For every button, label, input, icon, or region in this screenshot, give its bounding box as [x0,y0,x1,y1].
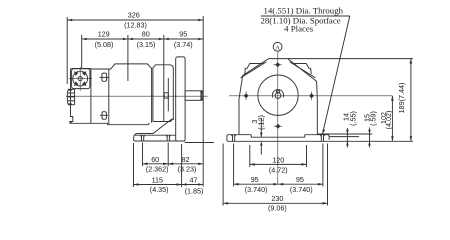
foot bottom [134,140,185,142]
second section internal edge [167,78,169,111]
svg-text:189(7.44): 189(7.44) [397,83,406,114]
svg-text:(12.83): (12.83) [124,21,147,30]
second section outline [153,65,173,122]
left inner chamfer line [241,62,267,78]
svg-text:(.59): (.59) [368,111,377,126]
right view circled A [273,42,282,51]
dimension 95 line top [164,38,203,41]
svg-text:326: 326 [128,11,140,20]
foot hole right [320,135,325,142]
main body hump [109,64,152,69]
extension line right shared [202,16,204,187]
extension 120 right [306,145,308,167]
right view body outline [269,59,318,135]
right view body outline left [239,59,269,135]
main body bottom [108,124,149,126]
extension top 189 [288,58,413,60]
shaft end line [200,91,202,101]
flange center hole [78,77,82,81]
foot bracket left curve [135,134,138,136]
extension 95 right [322,144,324,187]
shaft circle [275,93,281,99]
left view port fitting ribs [67,89,74,105]
dimension 15 vertical [368,128,371,148]
svg-text:(5.08): (5.08) [95,40,114,49]
dimension 47 line [182,183,204,186]
svg-text:129: 129 [98,30,110,39]
dimension 80 line [128,38,164,41]
svg-text:95: 95 [251,175,259,184]
bolt circle in flange [73,71,88,86]
extension 115/47 [181,144,183,187]
svg-text:(2.362): (2.362) [146,165,169,174]
extension line 80/95 [163,35,165,121]
left view port block outline [70,69,108,125]
foot bolt hole 2 [166,135,171,141]
bolt hole right [309,92,314,101]
dimension 82 line [168,163,203,166]
dimension 3 vertical [260,118,263,155]
extension 60 left [142,143,144,167]
spacer section top line [91,68,111,70]
dimension 60 line [143,163,169,166]
svg-text:82: 82 [182,155,190,164]
svg-text:(9.06): (9.06) [268,204,287,213]
right ear tab [293,64,312,75]
mounting foot [135,134,176,136]
main body lower step [148,123,150,125]
left view centerline [66,95,208,97]
svg-text:(1.85): (1.85) [185,186,204,195]
svg-text:(4.35): (4.35) [150,185,169,194]
dimension 326 line [67,19,203,22]
dimension 120 line [250,163,307,166]
dimension 115 line [134,183,182,186]
foot bolt hole 1 [140,135,145,141]
shaft end chamfer marks [201,91,203,94]
note leader shelf [261,15,350,17]
port block right edge [90,69,92,124]
svg-text:(3.740): (3.740) [290,185,313,194]
svg-text:(.55): (.55) [348,111,357,126]
shaft [185,91,202,101]
foot hole left [231,135,236,142]
svg-text:(3.15): (3.15) [137,40,156,49]
svg-text:(3.740): (3.740) [245,185,268,194]
extension 60/82 [167,143,169,167]
second section boss [164,93,168,98]
leader arrowhead [322,129,325,134]
main body right edge [151,68,153,123]
extension line 129 left [81,35,83,69]
extension 230 right [327,144,329,206]
side bolt lower [100,112,108,120]
bolt hole bottom [274,124,283,129]
keyway circle [277,90,280,93]
dimension 189 vertical [410,59,413,142]
extension base-bottom right [329,140,413,142]
dimension 95 left line [234,183,279,186]
dimension 14 vertical [346,128,349,148]
svg-text:120: 120 [272,155,284,164]
svg-text:(3.23): (3.23) [178,165,197,174]
dimension 129 line [82,38,128,41]
flange centerline marks [79,67,81,91]
base recess line [251,135,304,138]
dimension 102 vertical [391,96,394,142]
svg-text:115: 115 [152,175,163,184]
extension 120 left [249,145,251,167]
right view horizontal centerline / 102 extension [229,95,392,97]
svg-text:95: 95 [296,175,304,184]
svg-text:A: A [275,44,280,51]
svg-text:95: 95 [179,30,187,39]
dimension 230 line [223,202,327,205]
svg-text:(.12): (.12) [257,115,266,130]
svg-text:4 Places: 4 Places [284,24,314,34]
svg-text:(4.72): (4.72) [269,165,288,174]
base right foot [305,135,329,140]
left ear tab [245,64,264,75]
extension 230 left [222,144,224,206]
svg-text:47: 47 [190,175,198,184]
flange bolt arrows [74,71,87,86]
svg-text:80: 80 [142,30,150,39]
extension 95 left [233,144,235,187]
extension line 129/80 [127,35,129,81]
note leader line [322,16,349,134]
svg-text:230: 230 [271,194,283,203]
base left foot [227,135,329,142]
extension line left 326 [66,17,68,84]
right view vertical centerline [277,52,279,184]
dimension 95 right line [278,183,323,186]
side bolt upper [100,73,109,81]
bolt hole left [244,92,249,101]
svg-text:60: 60 [151,155,159,164]
extension 115 left [133,143,135,187]
foot bracket slant [137,119,174,133]
shaft boss arc [272,90,283,98]
extension foot-top right [317,133,372,135]
svg-text:14(.551) Dia. Through: 14(.551) Dia. Through [264,6,344,16]
svg-text:(3.74): (3.74) [174,40,193,49]
square port flange [72,69,90,89]
extension recess right [329,136,359,138]
flange plate [176,57,185,141]
right inner chamfer line [290,62,316,78]
foot left edge [133,135,136,141]
bolt hole top [273,62,282,67]
main body left edge [108,69,110,125]
base bottom extension right [185,142,214,144]
pilot circle [258,75,298,115]
svg-text:(4.02): (4.02) [384,111,393,130]
